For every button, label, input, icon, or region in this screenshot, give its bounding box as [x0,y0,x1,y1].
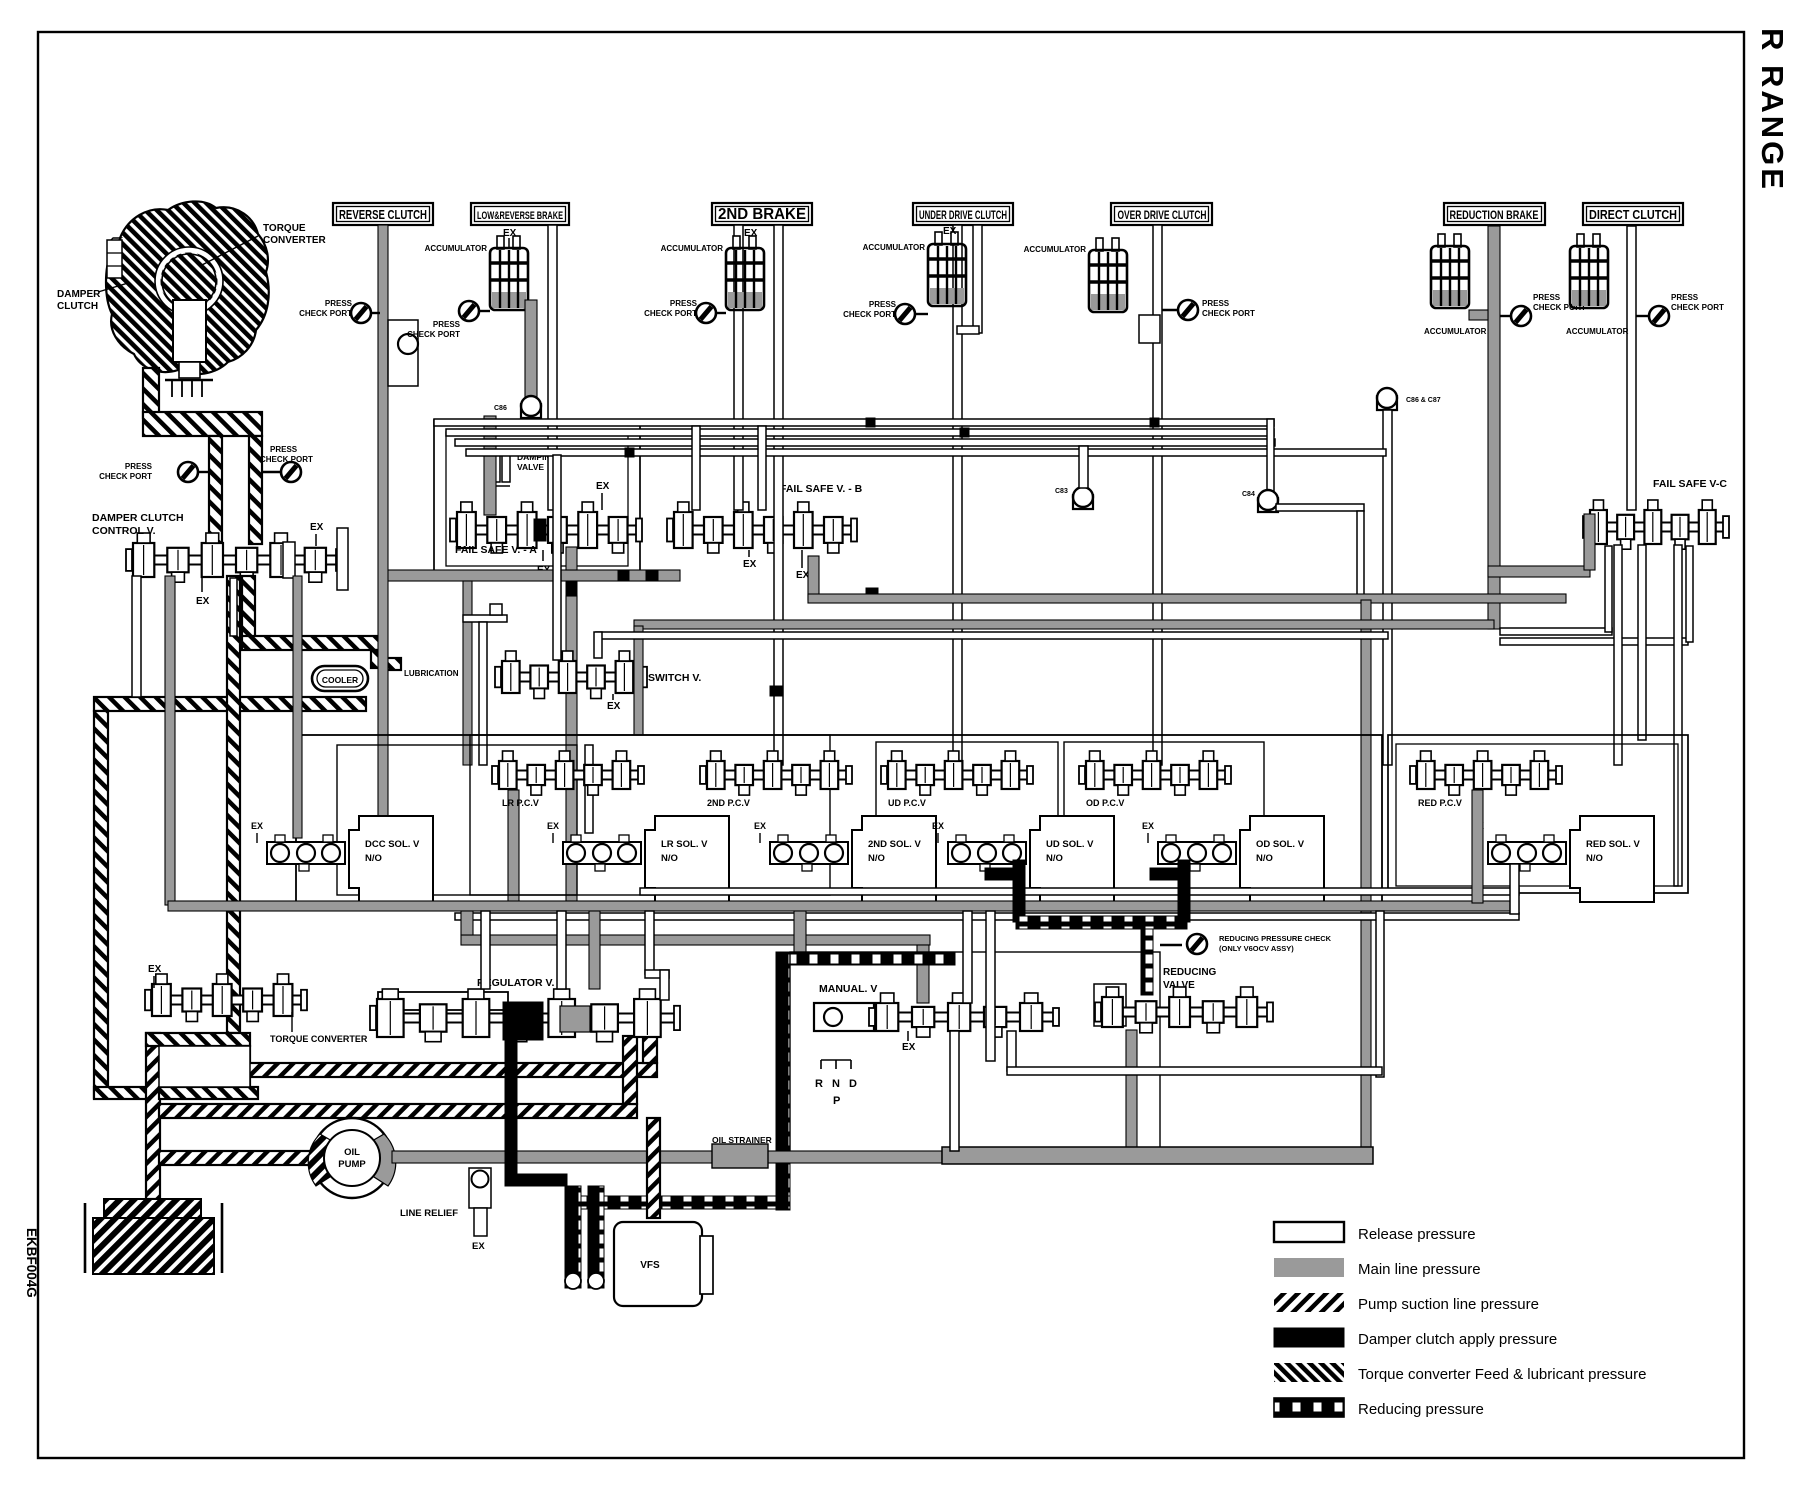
svg-text:TORQUE: TORQUE [263,223,306,234]
wire c84 link [1276,504,1364,511]
svg-text:ACCUMULATOR: ACCUMULATOR [661,244,724,253]
wire gray switch horiz [383,570,680,581]
solenoid DCC box [349,816,433,902]
svg-text:UNDER DRIVE CLUTCH: UNDER DRIVE CLUTCH [919,210,1007,222]
svg-text:REDUCING PRESSURE CHECK: REDUCING PRESSURE CHECK [1219,934,1332,943]
press check port reverse [370,312,380,314]
svg-text:PRESS: PRESS [1533,293,1561,302]
accumulator lowrev [490,236,528,310]
check ball C84 [1258,490,1278,512]
wire tc feed down [143,368,159,418]
wire band line4 [466,449,1386,456]
wire c83 stem [1079,446,1088,488]
svg-text:REDUCING: REDUCING [1163,967,1217,978]
wire feed valve-cooler [242,576,255,644]
reducing valve [1100,1008,1268,1017]
wire vfs black link [505,1174,567,1186]
fail safe valve A [455,526,637,535]
wire failsafeC white1 [1500,628,1612,635]
UD P.C.V valve [886,771,1028,780]
svg-text:LR SOL. V: LR SOL. V [661,839,708,850]
wire od white [1153,225,1162,765]
label box DIRECT CLUTCH [1583,203,1683,225]
solenoid UD coil [948,835,1026,871]
wire gray lrpcv drop [463,581,472,765]
solenoid RED box [1570,816,1654,902]
wire gray band2 elbow up [461,911,473,935]
svg-text:ACCUMULATOR: ACCUMULATOR [1566,327,1629,336]
2ND P.C.V valve [705,771,847,780]
wire tc feed drop B [249,436,262,544]
LR P.C.V valve [497,771,639,780]
wire lowrev gray jog [484,416,496,515]
wire manual up white2 [986,911,995,1061]
wire reduction gray [1488,226,1500,629]
wire reducing gray down [1126,1030,1137,1152]
wire ud white L [953,225,962,765]
svg-text:Reducing pressure: Reducing pressure [1358,1401,1484,1418]
svg-text:PRESS: PRESS [1202,299,1230,308]
solenoid LR coil [563,835,641,871]
wire reverse clutch main [378,225,388,903]
oil pump [312,1118,392,1198]
svg-text:DAMPER CLUTCH: DAMPER CLUTCH [92,512,184,524]
svg-text:FAIL SAFE V-C: FAIL SAFE V-C [1653,478,1727,490]
svg-text:PRESS: PRESS [869,300,897,309]
manual v box [790,952,1160,1152]
svg-text:2ND BRAKE: 2ND BRAKE [718,206,806,223]
label box REVERSE CLUTCH [333,203,433,225]
svg-text:SWITCH V.: SWITCH V. [648,672,701,684]
fail safe valve B [672,526,852,535]
reducing press check [1160,944,1182,946]
legend pump suction line pressure [1274,1293,1344,1312]
svg-text:PUMP: PUMP [338,1159,366,1170]
oil strainer lump [712,1144,768,1168]
solenoid LR box [645,816,729,902]
svg-text:CHECK PORT: CHECK PORT [1671,303,1724,312]
oil pan body [93,1218,214,1274]
press check port lowrev [477,310,490,312]
svg-text:EX: EX [196,596,210,607]
svg-text:N/O: N/O [1586,853,1603,864]
press check port tc right [262,471,283,473]
wire gray mid1 [808,594,1566,603]
svg-text:CHECK PORT: CHECK PORT [1202,309,1255,318]
svg-text:MANUAL. V: MANUAL. V [819,983,877,995]
svg-text:EX: EX [754,821,766,831]
svg-text:C83: C83 [1055,488,1068,495]
junction dot 3 [960,428,969,437]
solenoid 2ND coil [770,835,848,871]
svg-text:RED P.C.V: RED P.C.V [1418,798,1462,808]
wire band drop fsb R [758,426,766,510]
wire suction vfs drop [647,1118,660,1218]
od small box [1139,315,1160,343]
svg-text:EKBF004G: EKBF004G [24,1228,39,1298]
wire failsafeC drop2 [1638,545,1646,740]
svg-text:REVERSE CLUTCH: REVERSE CLUTCH [339,207,427,222]
regulator valve [378,992,508,1010]
wire black reg down [505,1030,517,1182]
svg-text:VALVE: VALVE [517,462,544,472]
svg-text:TORQUE CONVERTER: TORQUE CONVERTER [270,1034,368,1044]
valve bank box OD [1064,742,1264,894]
svg-text:UD SOL. V: UD SOL. V [1046,839,1094,850]
svg-text:REDUCTION BRAKE: REDUCTION BRAKE [1450,208,1539,222]
wire c86c87 drop [1383,410,1392,765]
svg-text:LINE RELIEF: LINE RELIEF [400,1208,458,1219]
wire gray band2 elbow down [917,945,929,1003]
wire white lrpcv drop [479,622,487,765]
wire main gray band [168,901,1519,911]
wire lowrev gray down1 [525,300,537,400]
valve bank box LR [470,735,830,895]
check ball C86C87 [1377,388,1397,410]
svg-text:2ND SOL. V: 2ND SOL. V [868,839,921,850]
wire fsb-gray stub [808,556,819,600]
wire white mid [596,632,1388,639]
svg-text:(ONLY V6OCV ASSY): (ONLY V6OCV ASSY) [1219,944,1294,953]
fail safe valve C [1588,523,1724,532]
svg-text:EX: EX [607,701,621,712]
accumulator reduction [1431,234,1469,308]
wire tcc white box [159,1046,250,1087]
wire band drop switch [553,455,561,660]
press check port ud [913,313,928,315]
svg-text:EX: EX [743,559,757,570]
wire ud white R [973,225,982,333]
wire dash left vert [776,952,790,1210]
svg-text:ACCUMULATOR: ACCUMULATOR [1424,327,1487,336]
svg-text:CHECK PORT: CHECK PORT [260,455,313,464]
svg-text:N: N [832,1078,840,1090]
wire gray lr down [508,790,519,903]
valve bank inner box left [337,745,577,895]
wire gray band2 [461,935,930,945]
wire tc feed elbow band [143,412,262,436]
svg-text:EX: EX [902,1042,916,1053]
solenoid UD box [1030,816,1114,902]
oil strainer body [942,1147,1373,1164]
label box UNDER DRIVE CLUTCH [913,203,1013,225]
wire suction elbow B up [623,1036,637,1104]
svg-text:EX: EX [596,481,610,492]
svg-text:CHECK PORT: CHECK PORT [843,310,896,319]
svg-text:VFS: VFS [640,1260,660,1271]
press check port red [1500,315,1512,317]
selector RNDP [821,1060,851,1069]
svg-text:EX: EX [1142,821,1154,831]
wire gray switch drop [566,547,577,570]
reducing valve inlet box [1094,984,1126,1026]
svg-text:EX: EX [310,522,324,533]
wire gray mid2 dropL [634,626,643,735]
svg-text:CONTROL V.: CONTROL V. [92,525,156,537]
svg-text:C86: C86 [494,405,507,412]
wire failsafeC drop3 [1674,545,1682,886]
wire gray dcc drop [293,576,302,838]
line relief valve [469,1168,491,1208]
wire feed elbowbox top [146,1033,250,1046]
wire red white drop [1510,864,1519,914]
wire white band 888 [640,888,1519,895]
svg-text:C86 & C87: C86 & C87 [1406,397,1441,404]
wire feed elbowbox right [237,1046,250,1087]
svg-text:N/O: N/O [1256,853,1273,864]
wire gray left drop [165,576,175,905]
wire band drop fsb L [692,426,700,510]
solenoid 2ND box [852,816,936,902]
wire suction pan riser [146,1033,160,1199]
svg-text:LUBRICATION: LUBRICATION [404,669,459,678]
accumulator 2nd [726,236,764,310]
svg-text:R: R [815,1078,823,1090]
svg-text:PRESS: PRESS [1671,293,1699,302]
svg-text:PRESS: PRESS [670,299,698,308]
wire suction horiz pump [159,1151,314,1165]
svg-text:N/O: N/O [868,853,885,864]
svg-text:FAIL SAFE V. - B: FAIL SAFE V. - B [780,483,863,495]
junction dot 6 [770,686,782,696]
svg-text:PRESS: PRESS [433,320,461,329]
svg-text:CHECK PORT: CHECK PORT [299,309,352,318]
svg-text:CHECK PORT: CHECK PORT [407,330,460,339]
svg-text:Release pressure: Release pressure [1358,1226,1476,1243]
reverse check loop [388,320,418,386]
svg-text:OD SOL. V: OD SOL. V [1256,839,1305,850]
junction dot 1 [625,448,634,457]
wire lubrication stub [385,658,401,670]
valve bank outer box [296,735,1382,907]
press check port od [1162,309,1180,311]
wire feed horizontal long [94,697,366,711]
wire dash top [790,952,955,965]
wire reg down white2 [557,911,566,989]
wire lowrev white right [548,225,557,510]
wire suction horiz A [159,1063,657,1077]
legend reducing pressure [1274,1398,1344,1417]
wire white mid dropL [230,578,237,636]
wire white 616 stub [463,615,507,622]
wire dash north [1016,916,1187,929]
wire pump out gray [392,1151,942,1163]
press check port direct [1636,315,1651,317]
wire gray drop to dash [794,911,806,953]
switch valve [500,673,642,682]
wire feed elbow bottom [94,1087,159,1099]
wire band corner right [1267,419,1274,491]
accumulator ud [928,232,966,306]
wire suction elbow A up [643,1036,657,1063]
wire gray mid2 [634,620,1494,629]
svg-text:CHECK PORT: CHECK PORT [644,309,697,318]
svg-text:OIL: OIL [344,1147,360,1158]
solenoid OD coil [1158,835,1236,871]
svg-text:C84: C84 [1242,491,1255,498]
solenoid RED coil [1488,835,1566,871]
valve bank box RED inner [1396,744,1678,886]
svg-text:LOW&REVERSE BRAKE: LOW&REVERSE BRAKE [477,210,563,222]
accumulator direct [1570,234,1608,308]
legend damper clutch apply pressure [1274,1328,1344,1347]
svg-text:PRESS: PRESS [325,299,353,308]
wire 2nd white R [774,225,783,765]
svg-text:P: P [833,1095,840,1107]
svg-text:ACCUMULATOR: ACCUMULATOR [863,243,926,252]
torque converter [106,201,269,397]
wire gray mid1 endR [1361,600,1371,1154]
wire dash bottom [565,1196,790,1209]
accumulator od [1089,238,1127,312]
legend release pressure [1274,1222,1344,1242]
wire suction horiz B [159,1104,637,1118]
svg-text:Pump suction line pressure: Pump suction line pressure [1358,1296,1539,1313]
svg-text:PRESS: PRESS [270,445,298,454]
wire white lr mid [585,745,593,833]
RED P.C.V valve [1415,771,1557,780]
wire feed left tall [94,711,108,1098]
wire manual up white1 [963,911,972,1003]
wire black drop od [1150,868,1190,880]
svg-text:N/O: N/O [365,853,382,864]
press check port 2nd [714,312,726,314]
svg-text:DAMPER: DAMPER [57,289,101,300]
junction dot 4 [1150,418,1159,427]
svg-text:LR P.C.V: LR P.C.V [502,798,539,808]
oil pan top plate [104,1199,201,1223]
wire white dcc drop [132,576,141,697]
wire feed elbowbox bottom [159,1087,258,1099]
wire red gray drop [1472,790,1483,903]
svg-text:PRESS: PRESS [125,462,153,471]
svg-text:DIRECT CLUTCH: DIRECT CLUTCH [1589,208,1677,222]
svg-text:CHECK PORT: CHECK PORT [99,472,152,481]
svg-text:EX: EX [251,821,263,831]
svg-text:EX: EX [547,821,559,831]
svg-text:N/O: N/O [1046,853,1063,864]
svg-text:COOLER: COOLER [322,675,358,685]
wire failsafeC drop1 [1614,545,1622,765]
wire feed mid drop [227,576,240,1033]
wire cooler drop [371,650,385,668]
wire band line2 [446,429,1274,436]
check ball C83 [1073,487,1093,509]
svg-text:R RANGE: R RANGE [1755,28,1790,192]
wire failsafeC gray elbow [1488,566,1590,577]
label box 2ND BRAKE [712,203,812,225]
legend main line pressure [1274,1258,1344,1277]
svg-text:ACCUMULATOR: ACCUMULATOR [1024,245,1087,254]
OD P.C.V valve [1084,771,1226,780]
vfs body [614,1222,702,1306]
svg-text:UD P.C.V: UD P.C.V [888,798,926,808]
svg-text:EX: EX [932,821,944,831]
svg-text:OD P.C.V: OD P.C.V [1086,798,1124,808]
wire reg down gray [589,911,600,989]
junction dot switch [618,570,629,581]
svg-text:Torque converter Feed & lubric: Torque converter Feed & lubricant pressu… [1358,1366,1646,1383]
svg-text:CONVERTER: CONVERTER [263,235,327,246]
fail safe A outer box [434,420,640,578]
wire band line1 [434,419,1274,426]
svg-text:D: D [849,1078,857,1090]
valve bank box RED outer [1388,735,1688,893]
junction dot 5 [866,588,878,600]
svg-text:CLUTCH: CLUTCH [57,301,98,312]
wire reg down white1 [481,911,490,989]
svg-text:EX: EX [744,228,758,239]
label box REDUCTION BRAKE [1444,203,1545,225]
junction dot 2 [866,418,875,427]
svg-text:N/O: N/O [661,853,678,864]
cooler [312,666,368,691]
svg-text:Damper clutch apply pressure: Damper clutch apply pressure [1358,1331,1557,1348]
wire reg right vert [645,911,654,974]
wire tc feed drop A [209,436,222,544]
wire manual white loop [950,1031,959,1151]
svg-text:DCC SOL. V: DCC SOL. V [365,839,420,850]
damping valve [492,450,500,482]
svg-text:Main line pressure: Main line pressure [1358,1261,1481,1278]
label box OVER DRIVE CLUTCH [1111,203,1212,225]
solenoid OD box [1240,816,1324,902]
valve bank box UD [876,742,1058,894]
tc control valve [150,996,302,1005]
manual valve [814,1003,874,1031]
svg-text:EX: EX [943,226,957,237]
solenoid DCC coil [267,835,345,871]
svg-text:RED SOL. V: RED SOL. V [1586,839,1641,850]
vfs stripes [565,1186,581,1288]
svg-text:EX: EX [472,1241,485,1252]
wire direct white [1627,226,1636,510]
wire red pcv white vert [1376,911,1384,1077]
label box LOW&amp;REVERSE BRAKE [471,203,569,225]
wire white band pair [455,913,1519,920]
check ball C86 [521,396,541,418]
svg-text:ACCUMULATOR: ACCUMULATOR [425,244,488,253]
svg-text:2ND P.C.V: 2ND P.C.V [707,798,750,808]
wire acc-red stub [1469,310,1488,320]
legend torque converter feed pressure [1274,1363,1344,1382]
wire dash right drop [1141,929,1153,995]
wire failsafeC white2 [1500,638,1688,645]
wire black drop ud [985,868,1025,880]
damper clutch control valve [131,556,337,565]
wire 2nd white L [734,225,743,510]
svg-text:EX: EX [148,964,162,975]
wire feed cooler horiz [242,636,385,650]
press check port tc left [196,471,210,473]
fail safe A inner box [446,432,628,566]
svg-text:OVER DRIVE CLUTCH: OVER DRIVE CLUTCH [1118,210,1207,222]
wire band line3 [455,439,1275,446]
svg-text:FAIL SAFE V. - A: FAIL SAFE V. - A [455,544,537,556]
